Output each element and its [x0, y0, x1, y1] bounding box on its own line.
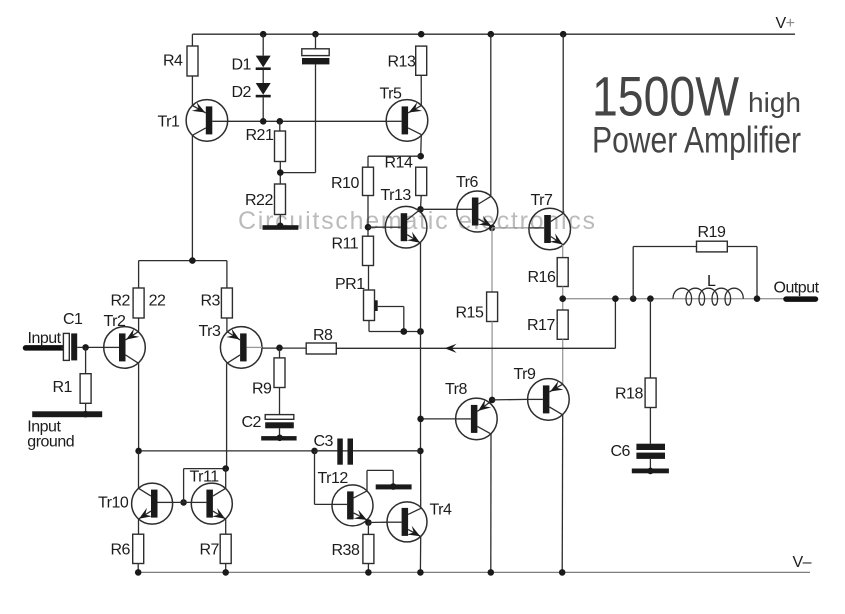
wire R10-Tr13base: [367, 196, 369, 237]
svg-text:R21: R21: [246, 127, 274, 144]
wire D2-basewire: [262, 97, 264, 121]
wire R22-gnd: [279, 215, 281, 226]
node junction Tr8-emitter: [489, 397, 496, 404]
resistor R14: [385, 155, 427, 196]
svg-text:D2: D2: [232, 84, 252, 101]
resistor R4: [163, 46, 198, 76]
svg-text:Tr5: Tr5: [380, 86, 403, 103]
svg-text:ground: ground: [27, 434, 74, 451]
node output terminal: [774, 280, 820, 300]
ground input: [27, 411, 102, 451]
transistor Tr8: [445, 381, 497, 440]
transistor Tr12: [318, 470, 374, 526]
svg-text:Tr4: Tr4: [430, 502, 453, 519]
resistor R8: [306, 327, 336, 354]
svg-text:R11: R11: [332, 236, 359, 253]
ground R22: [263, 223, 299, 230]
node junction R21-R22: [277, 169, 284, 176]
node junction rail-R38: [365, 569, 372, 576]
svg-text:R16: R16: [528, 269, 556, 286]
wire R17-Tr9e: [562, 339, 564, 384]
resistor R16: [528, 258, 569, 287]
wire R15-Tr8e: [491, 322, 493, 400]
wire cap-R21R22: [280, 64, 315, 172]
svg-text:Tr9: Tr9: [514, 366, 537, 383]
wire fb-vert: [614, 299, 616, 349]
node junction C1-R1: [82, 344, 89, 351]
wire Tr11-R7: [225, 519, 227, 534]
svg-text:Tr11: Tr11: [190, 469, 220, 486]
wire fb-horA: [336, 347, 615, 349]
wire Tr6e-R15: [491, 228, 493, 292]
resistor R13: [388, 46, 427, 75]
node junction rail-R6: [135, 569, 142, 576]
wire C6-gnd: [649, 459, 651, 469]
node junction tail-C3: [311, 448, 318, 455]
svg-text:R6: R6: [111, 542, 131, 559]
diode D1: [232, 56, 271, 74]
transistor Tr2: [104, 313, 146, 368]
svg-text:D1: D1: [232, 57, 252, 74]
wire R14node-R10: [368, 156, 421, 167]
svg-text:R2: R2: [111, 293, 131, 310]
wire C3-Tr12base: [315, 451, 333, 505]
node junction tail-right: [417, 448, 424, 455]
node junction rail-R7: [222, 569, 229, 576]
node junction D2-base: [260, 118, 267, 125]
wire tail rail: [139, 450, 421, 452]
resistor R2: [111, 288, 166, 318]
wire R19-left: [633, 247, 696, 299]
potentiometer PR1: [335, 276, 378, 321]
wire R19-right: [727, 247, 757, 299]
node junction PR1-a: [400, 328, 407, 335]
transistor Tr11: [190, 469, 233, 525]
svg-text:Tr8: Tr8: [445, 381, 468, 398]
svg-text:Tr10: Tr10: [98, 495, 129, 512]
ground C2: [261, 435, 296, 442]
arrow feedback: [445, 344, 457, 353]
svg-text:Circuitschematic electronics: Circuitschematic electronics: [238, 207, 595, 235]
wire R11-PR1: [368, 266, 370, 291]
svg-text:Power Amplifier: Power Amplifier: [592, 120, 801, 161]
node junction Tr12-em: [365, 519, 372, 526]
capacitor C-Tr12: [376, 483, 412, 490]
transistor Tr13: [381, 187, 427, 248]
resistor R15: [456, 292, 498, 322]
node title: [592, 65, 801, 161]
wire C1-R1: [85, 347, 87, 373]
wire Tr11-coll-up: [225, 469, 227, 489]
wire R1-gnd: [85, 403, 87, 414]
wire R38-rail: [367, 564, 369, 573]
wire Tr13 base: [368, 226, 385, 228]
svg-text:R17: R17: [527, 317, 555, 334]
wire Tr8e-Tr9base: [492, 398, 527, 401]
svg-text:R10: R10: [331, 175, 359, 192]
wire R8-Tr3base: [262, 347, 306, 349]
resistor R10: [331, 167, 374, 195]
resistor R22: [245, 184, 286, 215]
node junction Tr3-base: [276, 345, 283, 352]
svg-text:R15: R15: [456, 305, 484, 322]
svg-text:high: high: [748, 87, 801, 118]
node junction out-R16R17: [559, 295, 566, 302]
wire Tr12-coll-loop: [367, 470, 393, 491]
wire out-R17: [562, 299, 564, 310]
svg-text:V+: V+: [776, 15, 795, 32]
resistor R19: [697, 224, 728, 252]
wire R9-C2: [279, 388, 281, 415]
node V- label: [793, 554, 812, 571]
svg-text:Tr2: Tr2: [104, 313, 127, 330]
node junction Tr6-emitter: [489, 225, 496, 232]
node junction out-R18: [647, 295, 654, 302]
wire output line: [563, 298, 785, 300]
svg-text:C1: C1: [63, 311, 83, 328]
svg-text:22: 22: [149, 293, 166, 310]
svg-text:R4: R4: [163, 53, 183, 70]
svg-text:Tr1: Tr1: [158, 114, 181, 131]
diode D2: [232, 83, 271, 101]
node junction rail-Tr9: [559, 569, 566, 576]
svg-text:L: L: [707, 273, 716, 290]
wire R14-Tr13coll: [420, 196, 423, 210]
wire R16-out: [562, 287, 564, 299]
wire Tr5-R14node: [420, 135, 423, 157]
node junction Tr10-base: [180, 499, 187, 506]
wire PR1 bottom: [369, 321, 421, 332]
svg-text:1500W: 1500W: [592, 65, 739, 128]
svg-text:R14: R14: [385, 155, 413, 172]
node junction out-fb: [612, 295, 619, 302]
resistor R18: [615, 378, 656, 408]
node junction Tr11-coll: [222, 465, 229, 472]
resistor R7: [200, 534, 232, 563]
node junction R14-R10: [417, 153, 424, 160]
wire Tr12e-R38: [367, 523, 369, 535]
resistor R11: [332, 236, 374, 266]
svg-text:Tr7: Tr7: [531, 192, 554, 209]
svg-text:Input: Input: [28, 330, 62, 347]
svg-text:R7: R7: [200, 542, 220, 559]
svg-text:R22: R22: [245, 192, 273, 209]
node junction Tr1-coll: [189, 257, 196, 264]
node junction rail-Tr4: [417, 569, 424, 576]
wire C3right-Tr4: [420, 451, 422, 508]
wire R18-C6: [649, 408, 651, 444]
wire V- rail: [138, 571, 810, 573]
resistor R9: [252, 358, 285, 398]
svg-text:R38: R38: [332, 542, 360, 559]
capacitor C-top: [302, 49, 330, 65]
resistor R1: [53, 374, 92, 404]
wire Tr13-down: [420, 243, 422, 451]
wire Tr7e-R16: [562, 245, 564, 258]
node junction rail-Tr8: [488, 569, 495, 576]
svg-text:Tr13: Tr13: [381, 187, 412, 204]
wire Tr4-rail: [419, 537, 421, 573]
wire R13-Tr5: [420, 75, 422, 105]
transistor Tr9: [514, 366, 570, 420]
svg-text:R3: R3: [201, 293, 221, 310]
svg-text:Output: Output: [774, 280, 820, 297]
node V+ label: [776, 15, 795, 32]
node junction Tr13-base: [365, 224, 372, 231]
wire Tr8base: [421, 418, 456, 420]
svg-text:C6: C6: [611, 443, 631, 460]
wire R2-up: [138, 261, 140, 288]
node junction top-cap: [312, 31, 319, 38]
wire Tr10-R6: [138, 519, 140, 534]
wire top-cap: [315, 34, 317, 49]
inductor L: [673, 273, 743, 305]
wire Tr10b-Tr11: [173, 501, 192, 503]
wire PR1 wiper: [378, 307, 404, 332]
wire R21-R22: [279, 162, 281, 185]
node junction Tr13-coll: [417, 206, 424, 213]
wire R7-rail: [225, 564, 227, 573]
node junction PR1-b: [417, 328, 424, 335]
transistor Tr3: [199, 323, 263, 368]
wire Tr9-coll-rail: [561, 415, 564, 573]
svg-text:C2: C2: [242, 414, 262, 431]
wire top-Tr7: [562, 34, 564, 213]
node input terminal: [26, 330, 63, 348]
svg-text:Tr6: Tr6: [456, 174, 479, 191]
node junction out-term: [754, 295, 761, 302]
wire top-D1: [262, 34, 264, 55]
resistor R3: [201, 288, 233, 318]
wire out-R18-down: [649, 299, 651, 378]
transistor Tr6: [456, 174, 498, 232]
resistor R17: [527, 310, 568, 339]
wire C3-wires: [315, 450, 421, 452]
wire V+ rail: [192, 34, 795, 46]
wire R6-rail: [137, 564, 139, 573]
svg-text:R1: R1: [53, 379, 73, 396]
capacitor C6: [611, 443, 666, 460]
wire base-R21: [279, 121, 281, 131]
svg-text:Tr12: Tr12: [318, 470, 349, 487]
wire R2-Tr2: [138, 318, 140, 332]
wire Tr2-coll-rail: [138, 363, 140, 451]
node junction top-D1: [260, 31, 267, 38]
resistor R6: [111, 534, 144, 563]
node junction R21-base: [277, 118, 284, 125]
transistor Tr1: [158, 100, 228, 142]
node junction top-R13: [418, 31, 425, 38]
wire Tr12e-Tr4base: [368, 521, 387, 523]
transistor Tr4: [387, 502, 452, 542]
svg-text:R18: R18: [615, 386, 643, 403]
resistor R38: [332, 534, 374, 563]
wire Tr10-coll-up: [138, 451, 140, 488]
svg-text:R19: R19: [698, 224, 726, 241]
wire Tr1-collector: [191, 135, 193, 260]
node junction top-Tr6: [488, 31, 495, 38]
wire Tr10b-loop: [184, 469, 226, 503]
node junction out-R19: [630, 295, 637, 302]
svg-text:R8: R8: [313, 327, 333, 344]
wire Tr3-coll-down: [226, 363, 228, 468]
wire Tr13-Tr6 base: [421, 208, 457, 210]
wire D1-D2: [262, 70, 264, 83]
wire C1-Tr2: [61, 346, 104, 349]
wire Tr3base-R9: [279, 348, 281, 358]
wire top-Tr6: [490, 34, 492, 196]
wire Tr1-Tr5 base: [212, 120, 386, 122]
svg-text:R9: R9: [252, 381, 272, 398]
wire C2-gnd: [279, 428, 281, 436]
transistor Tr10: [98, 483, 173, 524]
svg-text:R13: R13: [388, 54, 416, 71]
wire Tr8-coll-rail: [490, 434, 492, 573]
node junction tail-Tr2: [135, 448, 142, 455]
transistor Tr5: [380, 86, 428, 142]
svg-text:Tr3: Tr3: [199, 323, 222, 340]
capacitor C2: [242, 414, 294, 431]
capacitor C1: [63, 311, 83, 360]
wire R3-Tr3: [226, 318, 228, 332]
wire R4-Tr1: [191, 76, 193, 106]
capacitor C3: [314, 433, 354, 465]
transistor Tr7: [529, 192, 571, 250]
wire Tr1c-horiz: [139, 260, 227, 262]
svg-text:PR1: PR1: [335, 276, 365, 293]
wire Tr6e-Tr7base: [492, 227, 529, 229]
ground C6: [632, 468, 669, 475]
node junction top-Tr7: [560, 31, 567, 38]
svg-text:C3: C3: [314, 433, 334, 450]
node watermark: [238, 207, 595, 235]
wire R3-up: [226, 261, 228, 288]
node junction Tr8-base: [417, 416, 424, 423]
resistor R21: [246, 127, 286, 162]
svg-text:V–: V–: [793, 554, 812, 571]
